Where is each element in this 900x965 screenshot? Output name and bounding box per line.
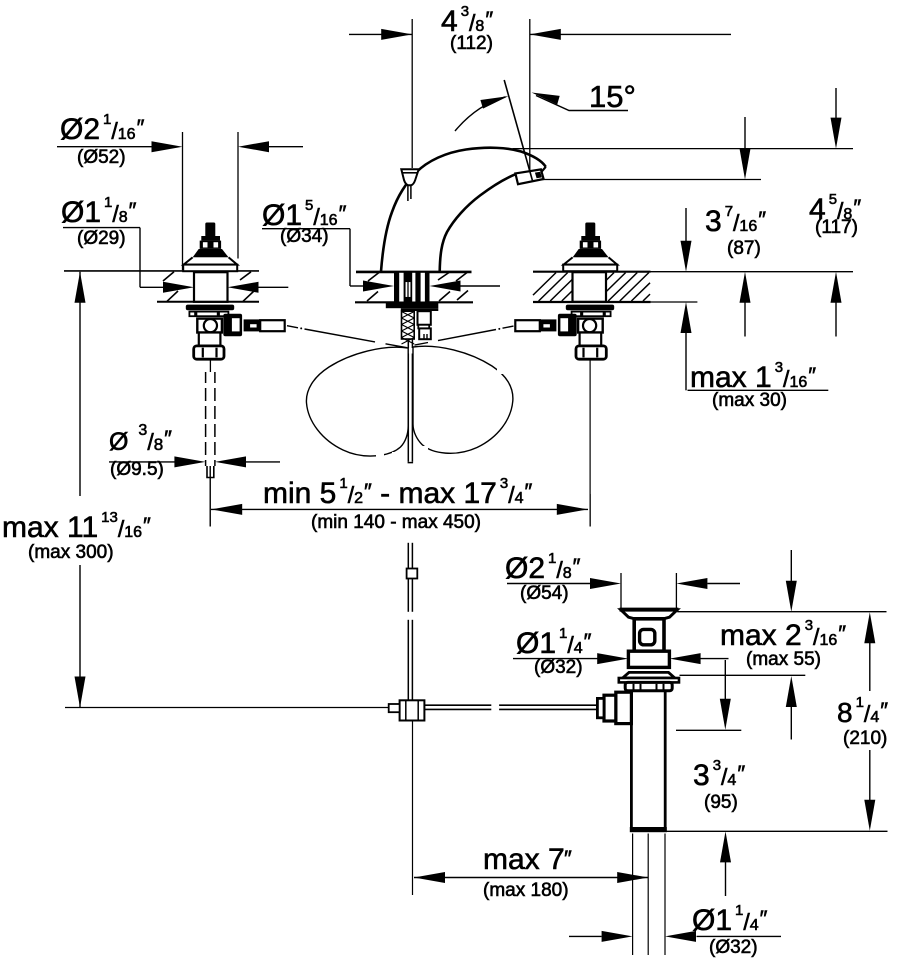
svg-text:(Ø32): (Ø32) <box>709 937 758 958</box>
svg-text:(max 55): (max 55) <box>746 649 821 670</box>
svg-text:max 7: max 7 <box>483 843 565 876</box>
svg-text:(117): (117) <box>815 217 858 238</box>
svg-text:(87): (87) <box>727 238 761 259</box>
svg-text:15°: 15° <box>589 79 636 114</box>
svg-text:(max 30): (max 30) <box>712 390 787 411</box>
svg-text:(Ø52): (Ø52) <box>77 147 126 168</box>
svg-text:(112): (112) <box>450 33 493 54</box>
svg-text:(Ø9.5): (Ø9.5) <box>110 459 164 480</box>
svg-text:(210): (210) <box>843 728 887 749</box>
svg-text:(Ø32): (Ø32) <box>534 657 583 678</box>
svg-text:″: ″ <box>564 846 572 871</box>
svg-text:(Ø29): (Ø29) <box>77 228 126 249</box>
svg-text:(Ø54): (Ø54) <box>520 583 569 604</box>
svg-text:(max 180): (max 180) <box>483 880 569 901</box>
svg-text:(max 300): (max 300) <box>28 542 114 563</box>
svg-text:(min 140 - max 450): (min 140 - max 450) <box>311 512 481 533</box>
svg-text:(Ø34): (Ø34) <box>280 226 329 247</box>
svg-text:min 51/2″ - max 173/4″: min 51/2″ - max 173/4″ <box>263 475 532 510</box>
svg-text:(95): (95) <box>704 792 738 813</box>
